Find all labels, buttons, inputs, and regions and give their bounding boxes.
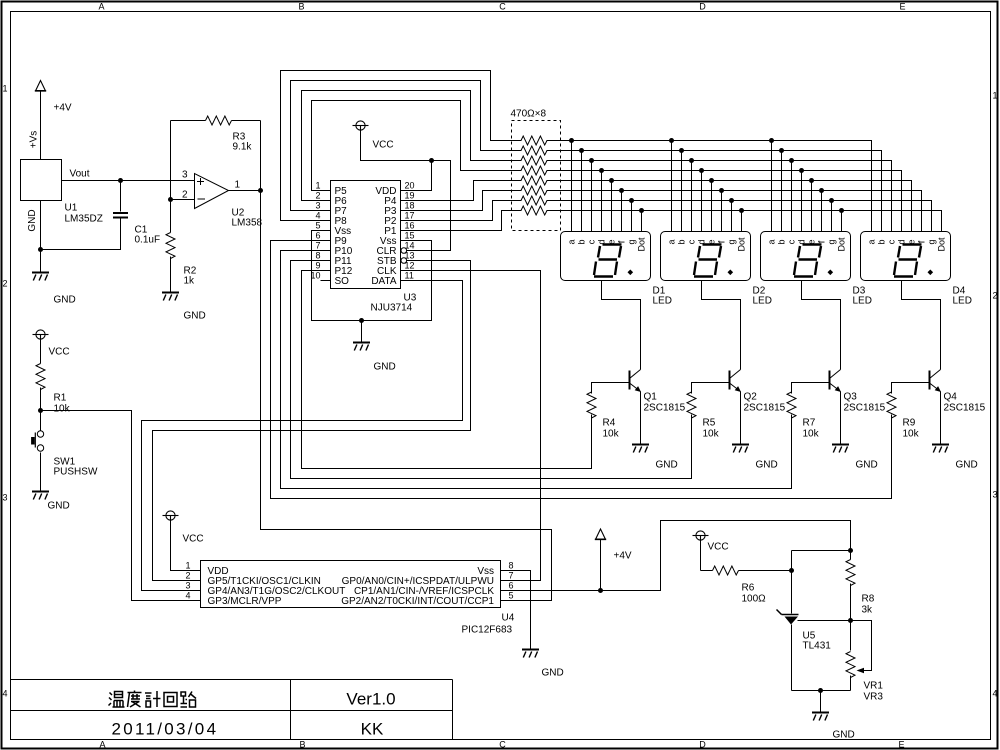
wire display D1 pin 3 drop (591, 161, 593, 232)
svg-text:10k: 10k (703, 429, 720, 440)
svg-text:R6: R6 (742, 583, 755, 594)
svg-text:R4: R4 (603, 418, 616, 429)
svg-text:10k: 10k (803, 429, 820, 440)
svg-text:10k: 10k (903, 429, 920, 440)
sensor U1 body (21, 160, 62, 201)
svg-text:VCC: VCC (183, 534, 204, 545)
wire U3 pin18 P3 to resnet row6 (401, 191, 522, 211)
junction bus D3 pin 6 (819, 188, 824, 193)
wire U3 pin17 P2 to resnet row7 (401, 201, 522, 221)
junction bus D1 pin 3 (589, 158, 594, 163)
junction bus D1 pin 7 (629, 198, 634, 203)
junction bus D1 pin 6 (619, 188, 624, 193)
svg-text:470Ω×8: 470Ω×8 (511, 109, 547, 120)
wire U3 pin20 VDD (401, 161, 432, 191)
display D3 body (761, 232, 851, 281)
junction bus D3 pin 8 (839, 208, 844, 213)
svg-text:GP2/AN2/T0CKI/INT/COUT/CCP1: GP2/AN2/T0CKI/INT/COUT/CCP1 (341, 596, 494, 607)
op-amp U2 (195, 174, 229, 209)
junction R8 top (848, 548, 853, 553)
junction bottom rail GND (818, 688, 823, 693)
svg-text:SO: SO (335, 276, 350, 287)
svg-text:7: 7 (509, 571, 514, 581)
wire Q2 emitter to ground (740, 392, 742, 444)
svg-text:b: b (677, 239, 687, 244)
svg-text:17: 17 (405, 211, 415, 221)
svg-text:LM358: LM358 (232, 218, 263, 229)
junction bus D2 pin 6 (719, 188, 724, 193)
wire VCC to U3 VDD and CLR (361, 131, 451, 251)
wire digit net P11 to R5 (291, 261, 692, 479)
wire C1 bottom return (41, 219, 121, 250)
svg-text:c: c (587, 239, 597, 244)
svg-text:18: 18 (405, 201, 415, 211)
wire display D3 pin 4 drop (801, 171, 803, 232)
svg-text:b: b (777, 239, 787, 244)
svg-text:1: 1 (2, 84, 7, 94)
svg-text:GND: GND (656, 460, 678, 471)
svg-text:11: 11 (405, 271, 414, 281)
wire display D2 pin 2 drop (681, 151, 683, 232)
wire segment bus row 2 (547, 151, 882, 232)
junction bus D1 pin 1 (569, 138, 574, 143)
svg-text:+4V: +4V (54, 103, 72, 114)
wire Q2 base (692, 383, 730, 394)
junction op-amp output/R3 (258, 188, 263, 193)
svg-text:Q1: Q1 (644, 392, 658, 403)
ground (Q1) (632, 445, 649, 453)
svg-text:GND: GND (542, 668, 564, 679)
svg-text:GND: GND (27, 209, 38, 231)
junction bus D2 pin 5 (709, 178, 714, 183)
wire segment bus row 4 (547, 171, 902, 232)
driver U3 body (331, 181, 401, 289)
svg-text:g: g (927, 239, 937, 244)
wire U4 pin6 to R8 top (501, 521, 851, 591)
svg-text:3k: 3k (862, 605, 874, 616)
wire display D2 pin 3 drop (691, 161, 693, 232)
wire VCC to U4 VDD (171, 521, 201, 571)
display D2 body (661, 232, 751, 281)
wire R3 left vertical / inverting node (170, 121, 172, 233)
svg-text:3: 3 (182, 170, 188, 181)
mcu U4 body (201, 561, 501, 608)
svg-text:a: a (667, 239, 677, 244)
wire display D3 common to Q3 (802, 281, 841, 370)
ground (Q4) (932, 445, 949, 453)
display D4 pin letters (867, 237, 947, 252)
wire TL431 anode down (791, 625, 793, 691)
wire digit net P9 to R9 (271, 241, 892, 499)
wire U3 pin4 P8 loop to resnet row1 (281, 71, 522, 221)
display D1 decimal point (628, 270, 634, 276)
svg-text:9.1k: 9.1k (233, 142, 253, 153)
wire Q1 emitter to ground (640, 392, 642, 444)
display D3 digit segments (794, 245, 822, 277)
wire display D1 pin 5 drop (611, 181, 613, 232)
wire display D2 pin 8 drop (741, 211, 743, 232)
junction R1/SW1/MCLR (38, 408, 43, 413)
wire display D2 pin 4 drop (701, 171, 703, 232)
svg-text:+Vs: +Vs (29, 131, 40, 149)
ground (SW1) (32, 492, 49, 500)
shunt regulator U5 TL431 (777, 610, 799, 615)
wire display D1 pin 7 drop (631, 201, 633, 232)
junction ground rail (359, 318, 364, 323)
svg-text:C: C (499, 740, 506, 750)
svg-text:19: 19 (405, 191, 415, 201)
transistor Q4 (930, 370, 941, 392)
wire Q4 emitter to ground (940, 392, 942, 444)
junction bus D2 pin 4 (699, 168, 704, 173)
wire TL431 ref line (798, 621, 872, 671)
svg-text:3: 3 (2, 493, 7, 503)
ground (U1) (32, 273, 49, 281)
svg-text:GND: GND (48, 501, 70, 512)
resistor network 470ohm x8 box (512, 121, 561, 231)
wire display D1 pin 6 drop (621, 191, 623, 232)
svg-text:2SC1815: 2SC1815 (844, 403, 886, 414)
wire segment bus row 8 (547, 211, 942, 232)
wire digit net P10 to R7 (281, 251, 792, 489)
junction bus D3 pin 7 (829, 198, 834, 203)
junction bus D2 pin 1 (669, 138, 674, 143)
wire R8 bottom (850, 584, 852, 651)
power arrow +4V (U1) (36, 81, 46, 91)
wire ground rail drop (361, 321, 363, 343)
svg-text:6: 6 (509, 581, 514, 591)
wire SW1 to ground (40, 453, 42, 492)
svg-text:E: E (899, 2, 905, 12)
power VCC (TL431) (693, 531, 709, 540)
transistor Q1 (630, 370, 641, 392)
resistor R9 (887, 392, 896, 418)
wire U1 GND pin (40, 201, 42, 273)
svg-text:B: B (298, 2, 304, 12)
wire op-amp output (229, 190, 261, 192)
ground (Q2) (732, 445, 749, 453)
ground (U3) (353, 343, 370, 351)
wire display D2 pin 7 drop (731, 201, 733, 232)
svg-text:16: 16 (405, 221, 415, 231)
display D2 pin letters (667, 237, 747, 252)
wire +4V arrow down (600, 539, 602, 591)
resistor R2 (166, 233, 175, 259)
power arrow +4V (mid) (596, 529, 606, 539)
display D4 body (861, 232, 951, 281)
wire Q4 base (892, 383, 930, 394)
switch SW1 (37, 431, 43, 437)
resistor RN1 (470) (521, 136, 547, 145)
resistor RN6 (470) (521, 186, 547, 195)
svg-text:5: 5 (509, 591, 514, 601)
wire segment bus row 5 (547, 181, 912, 232)
wire U3 pin10 SO stub (321, 280, 331, 282)
wire segment bus row 6 (547, 191, 922, 232)
wire display D1 pin 2 drop (581, 151, 583, 232)
svg-text:2SC1815: 2SC1815 (944, 403, 986, 414)
wire U3 pin2 P6 loop to resnet row3 (302, 91, 522, 201)
svg-text:Vout: Vout (70, 169, 90, 180)
wire U3 pin1 P5 loop to resnet row4 (312, 101, 522, 191)
wire display D3 pin 8 drop (841, 211, 843, 232)
wire digit net P12 to R4 (302, 271, 592, 469)
svg-text:3: 3 (185, 581, 190, 591)
svg-text:VCC: VCC (49, 347, 70, 358)
svg-text:LED: LED (753, 296, 772, 307)
junction bus D1 pin 5 (609, 178, 614, 183)
svg-text:2: 2 (182, 190, 188, 201)
wire VCC to R1 (40, 340, 42, 364)
svg-text:1: 1 (992, 91, 997, 101)
svg-text:GND: GND (54, 295, 76, 306)
ground (R2) (162, 293, 179, 301)
display D4 digit segments (894, 245, 922, 277)
svg-text:A: A (98, 2, 104, 12)
svg-text:GND: GND (374, 362, 396, 373)
wire display D2 pin 5 drop (711, 181, 713, 232)
wire U4 pin8 Vss to ground (501, 571, 531, 650)
svg-text:7: 7 (315, 241, 320, 251)
svg-text:GND: GND (956, 460, 978, 471)
svg-text:2: 2 (992, 291, 997, 301)
svg-text:20: 20 (405, 181, 415, 191)
ground (Q3) (832, 445, 849, 453)
wire STB pin13 to U4 GP5 (153, 261, 471, 581)
inversion bubble STB (pin13) (401, 258, 407, 264)
junction bus D1 pin 8 (639, 208, 644, 213)
svg-text:TL431: TL431 (803, 641, 832, 652)
junction bus D3 pin 2 (779, 148, 784, 153)
svg-text:a: a (867, 239, 877, 244)
svg-text:1: 1 (235, 180, 241, 191)
junction R6/TL431 cathode (789, 568, 794, 573)
svg-text:R1: R1 (54, 393, 67, 404)
junction bus D3 pin 4 (799, 168, 804, 173)
svg-text:E: E (898, 740, 904, 750)
svg-text:GP3/MCLR/VPP: GP3/MCLR/VPP (208, 596, 282, 607)
svg-text:a: a (567, 239, 577, 244)
junction bus D2 pin 7 (729, 198, 734, 203)
wire display D1 pin 1 drop (571, 141, 573, 232)
svg-text:R5: R5 (703, 418, 716, 429)
ground (TL431) (812, 713, 829, 721)
resistor RN3 (470) (521, 156, 547, 165)
display D1 pin letters (567, 237, 647, 252)
svg-text:9: 9 (315, 261, 320, 271)
svg-text:+4V: +4V (614, 551, 632, 562)
svg-text:PIC12F683: PIC12F683 (462, 625, 513, 636)
junction bus D3 pin 3 (789, 158, 794, 163)
svg-text:R9: R9 (903, 418, 916, 429)
resistor R6 (701, 570, 713, 572)
wire CLK pin12 to U4 GP0 (401, 271, 541, 581)
junction R8/VR1/REF (848, 618, 853, 623)
svg-text:VCC: VCC (373, 140, 394, 151)
svg-text:1: 1 (315, 181, 320, 191)
svg-text:A: A (99, 740, 105, 750)
svg-text:15: 15 (405, 231, 415, 241)
svg-text:Ver1.0: Ver1.0 (346, 690, 395, 709)
svg-text:8: 8 (509, 561, 514, 571)
inversion bubble CLR (pin14) (401, 248, 407, 254)
svg-text:0.1uF: 0.1uF (135, 235, 161, 246)
resistor R5 (687, 392, 696, 418)
capacitor C1 (113, 212, 128, 214)
svg-text:U4: U4 (502, 613, 515, 624)
wire Q3 emitter to ground (840, 392, 842, 444)
power VCC (U4) (163, 511, 179, 520)
svg-text:D: D (699, 2, 706, 12)
svg-text:4: 4 (315, 211, 320, 221)
wire display D2 pin 6 drop (721, 191, 723, 232)
transistor Q2 (730, 370, 741, 392)
svg-text:B: B (299, 740, 305, 750)
svg-text:Dot: Dot (737, 237, 747, 252)
svg-text:100Ω: 100Ω (742, 594, 767, 605)
junction bus D2 pin 3 (689, 158, 694, 163)
wire Q3 base (792, 383, 830, 394)
junction +4V tap (598, 588, 603, 593)
wire R1 to SW1 (40, 388, 42, 431)
wire display D3 pin 5 drop (811, 181, 813, 232)
svg-text:c: c (687, 239, 697, 244)
svg-text:Dot: Dot (837, 237, 847, 252)
resistor R8 (846, 560, 855, 586)
svg-text:VR1: VR1 (864, 681, 884, 692)
transistor Q3 (830, 370, 841, 392)
svg-text:c: c (787, 239, 797, 244)
power VCC (R1) (33, 330, 49, 339)
svg-text:VCC: VCC (708, 542, 729, 553)
resistor R1 (36, 364, 45, 390)
wire display D1 pin 8 drop (641, 211, 643, 232)
wire display D2 common to Q2 (702, 281, 741, 370)
resistor RN8 (470) (521, 206, 547, 215)
wire segment bus row 3 (547, 161, 892, 232)
svg-text:LM35DZ: LM35DZ (65, 214, 103, 225)
display D2 decimal point (728, 270, 734, 276)
resistor RN5 (470) (521, 176, 547, 185)
junction op-amp pin 2 node (168, 197, 173, 202)
wire C1 top lead (120, 181, 122, 212)
wire segment bus row 7 (547, 201, 932, 232)
display D1 body (561, 232, 651, 281)
svg-text:2011/03/04: 2011/03/04 (112, 720, 219, 739)
wire display D3 pin 2 drop (781, 151, 783, 232)
wire U3 pin16 P1 to resnet row8 (401, 211, 522, 231)
svg-text:KK: KK (361, 720, 384, 739)
svg-text:R8: R8 (862, 594, 875, 605)
svg-text:a: a (767, 239, 777, 244)
display D4 decimal point (928, 270, 934, 276)
wire display D3 pin 7 drop (831, 201, 833, 232)
wire rail to ground (820, 691, 822, 713)
potentiometer VR1 (846, 652, 855, 678)
svg-text:LED: LED (953, 296, 972, 307)
svg-text:D: D (699, 740, 706, 750)
resistor RN2 (470) (521, 146, 547, 155)
power VCC (U3) (353, 121, 369, 130)
wire output to U4 pin5 (AN2) (261, 121, 552, 601)
svg-text:Dot: Dot (637, 237, 647, 252)
resistor RN4 (470) (521, 166, 547, 175)
svg-text:2SC1815: 2SC1815 (644, 403, 686, 414)
wire display D2 pin 1 drop (671, 141, 673, 232)
svg-text:Dot: Dot (937, 237, 947, 252)
svg-text:1k: 1k (184, 276, 196, 287)
svg-text:R7: R7 (803, 418, 816, 429)
svg-text:g: g (727, 239, 737, 244)
svg-text:b: b (577, 239, 587, 244)
svg-text:1: 1 (185, 561, 190, 571)
svg-text:5: 5 (315, 221, 320, 231)
resistor RN7 (470) (521, 196, 547, 205)
svg-text:GND: GND (756, 460, 778, 471)
display D2 digit segments (694, 245, 722, 277)
wire TL431 cathode branch (792, 550, 851, 552)
svg-text:U1: U1 (65, 203, 78, 214)
resistor R4 (587, 392, 596, 418)
junction Vout/C1 (118, 178, 123, 183)
junction bus D3 pin 1 (769, 138, 774, 143)
wire DATA pin11 to U4 GP4 (142, 281, 463, 591)
svg-text:DATA: DATA (371, 276, 397, 287)
svg-text:8: 8 (315, 251, 320, 261)
display D3 pin letters (767, 237, 847, 252)
svg-text:PUSHSW: PUSHSW (54, 467, 98, 478)
ground (U4) (522, 650, 539, 658)
svg-text:2: 2 (315, 191, 320, 201)
svg-text:NJU3714: NJU3714 (371, 303, 413, 314)
svg-text:LED: LED (853, 296, 872, 307)
svg-text:GND: GND (184, 311, 206, 322)
svg-text:3: 3 (315, 201, 320, 211)
svg-text:4: 4 (185, 591, 190, 601)
junction bus D1 pin 4 (599, 168, 604, 173)
wire U3 pin19 P4 to resnet row5 (401, 181, 522, 201)
resistor R7 (787, 392, 796, 418)
svg-text:g: g (827, 239, 837, 244)
wire R1 node to U4 pin4 MCLR (41, 411, 201, 601)
svg-text:4: 4 (992, 689, 997, 699)
display D1 digit segments (594, 245, 622, 277)
svg-text:GND: GND (833, 730, 855, 741)
wire R2 to ground (170, 257, 172, 293)
wire VR1 bottom rail (792, 690, 851, 692)
wire display D3 pin 1 drop (771, 141, 773, 232)
junction bus D2 pin 2 (679, 148, 684, 153)
svg-text:Q2: Q2 (744, 392, 758, 403)
wire U3 pin5 Vss to ground rail (312, 231, 432, 321)
display D3 decimal point (828, 270, 834, 276)
svg-text:6: 6 (315, 231, 320, 241)
wire Vout to op-amp pin 3 (62, 180, 195, 182)
svg-text:2: 2 (2, 279, 7, 289)
junction bus D3 pin 5 (809, 178, 814, 183)
svg-text:g: g (627, 239, 637, 244)
svg-text:Q4: Q4 (944, 392, 958, 403)
svg-text:10k: 10k (603, 429, 620, 440)
wire display D3 pin 3 drop (791, 161, 793, 232)
svg-text:2SC1815: 2SC1815 (744, 403, 786, 414)
potentiometer arrow VR1 (857, 668, 865, 673)
wire segment bus row 1 (547, 141, 872, 232)
svg-text:c: c (887, 239, 897, 244)
svg-text:b: b (877, 239, 887, 244)
wire display D3 pin 6 drop (821, 191, 823, 232)
svg-text:10k: 10k (54, 404, 71, 415)
